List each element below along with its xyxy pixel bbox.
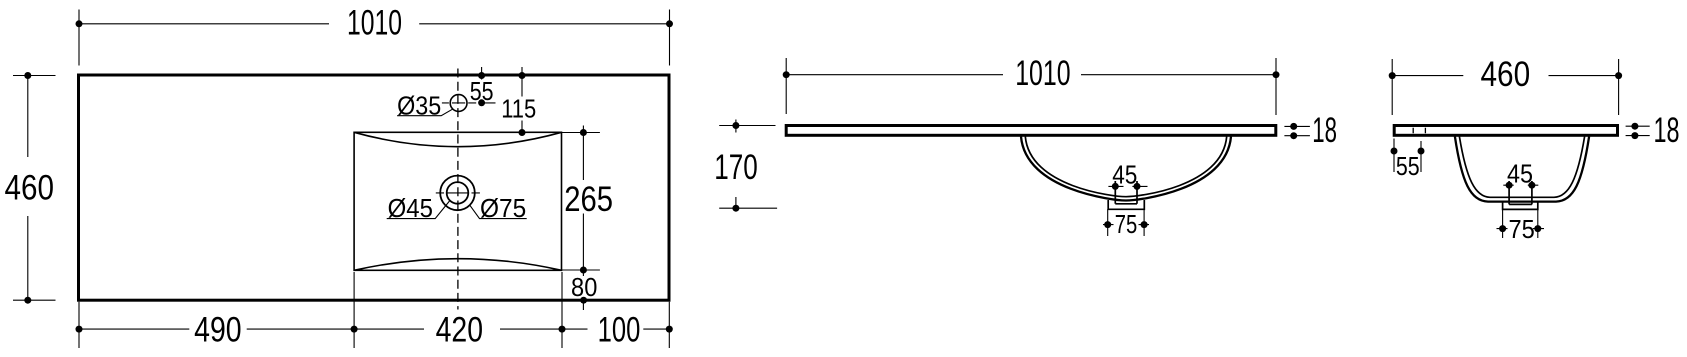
dim 18 front ticks <box>1284 126 1310 135</box>
dim 1010 line <box>79 23 670 25</box>
svg-text:55: 55 <box>470 76 494 106</box>
drain outline front <box>1108 200 1144 209</box>
drain inner walls front <box>1115 181 1137 204</box>
svg-text:55: 55 <box>1396 151 1420 181</box>
dim 45 front ticks <box>1108 185 1147 187</box>
dim 75 front ext lines <box>1108 209 1144 236</box>
faucet crosshair <box>442 102 496 104</box>
drain inner circle <box>447 182 469 204</box>
basin bottom rise curve <box>354 259 561 271</box>
dim 460 ext lines <box>1391 59 1393 115</box>
dim 75 side ticks <box>1497 228 1545 230</box>
bowl outer curve <box>1021 137 1231 201</box>
dim 75 front ticks <box>1103 224 1149 226</box>
label O45 leader <box>387 201 450 219</box>
svg-text:460: 460 <box>1480 54 1530 94</box>
svg-text:420: 420 <box>436 310 483 350</box>
svg-text:18: 18 <box>1654 110 1680 150</box>
dim 265 line <box>582 126 584 311</box>
dim 75 side ext lines <box>1503 209 1538 238</box>
svg-text:170: 170 <box>714 147 758 187</box>
drain outer circle <box>440 176 475 211</box>
slab side <box>1394 126 1617 136</box>
dim 18 side ticks <box>1626 126 1650 135</box>
svg-text:460: 460 <box>5 167 55 207</box>
vertical dashed centerline <box>457 69 459 310</box>
label O75 leader <box>470 205 527 219</box>
ext line basin bottom right <box>562 269 600 271</box>
dim 115 line <box>521 67 523 133</box>
svg-text:115: 115 <box>501 94 536 124</box>
dim 80 dot <box>580 297 587 304</box>
dim 55 side ext lines <box>1394 139 1421 173</box>
svg-text:45: 45 <box>1112 159 1137 189</box>
svg-text:Ø75: Ø75 <box>480 193 526 223</box>
countertop outline <box>79 75 670 300</box>
svg-text:45: 45 <box>1507 158 1533 188</box>
basin rectangle <box>354 132 561 270</box>
dim 460 extension lines <box>13 75 56 77</box>
label O35 leader <box>397 109 452 116</box>
dim 1010 front line <box>786 74 1276 76</box>
faucet hole section ticks <box>1413 128 1425 134</box>
dim 55 line <box>481 67 483 80</box>
bowl outer wall side <box>1455 137 1589 202</box>
svg-text:1010: 1010 <box>347 3 402 43</box>
dim 45 side ticks <box>1503 184 1538 186</box>
bowl inner wall side <box>1459 137 1584 198</box>
bottom dims extension lines <box>78 302 80 348</box>
svg-text:100: 100 <box>598 310 641 350</box>
drain crosshair <box>436 192 480 194</box>
svg-text:1010: 1010 <box>1015 53 1070 93</box>
drain inner walls side <box>1509 181 1532 204</box>
svg-text:265: 265 <box>564 179 613 219</box>
dim 1010 front ext lines <box>785 58 787 114</box>
svg-text:490: 490 <box>194 310 242 350</box>
dim 170 ext lines <box>719 126 777 209</box>
dim 460 line <box>27 76 29 301</box>
basin top sag curve <box>354 132 561 146</box>
svg-text:75: 75 <box>1115 209 1138 239</box>
bottom dim line <box>79 328 669 330</box>
svg-text:80: 80 <box>571 272 597 302</box>
svg-text:75: 75 <box>1508 214 1534 244</box>
dim 460 line <box>1392 75 1618 77</box>
drain outline side <box>1503 201 1538 209</box>
svg-text:18: 18 <box>1312 110 1337 150</box>
ext line basin top right <box>562 132 600 134</box>
faucet hole circle <box>450 95 467 112</box>
bowl inner curve <box>1025 137 1226 197</box>
dim 1010 extension lines <box>78 10 80 66</box>
slab front <box>786 126 1276 136</box>
svg-text:Ø35: Ø35 <box>397 90 441 120</box>
svg-text:Ø45: Ø45 <box>388 193 433 223</box>
dim 170 ticks <box>735 120 737 212</box>
